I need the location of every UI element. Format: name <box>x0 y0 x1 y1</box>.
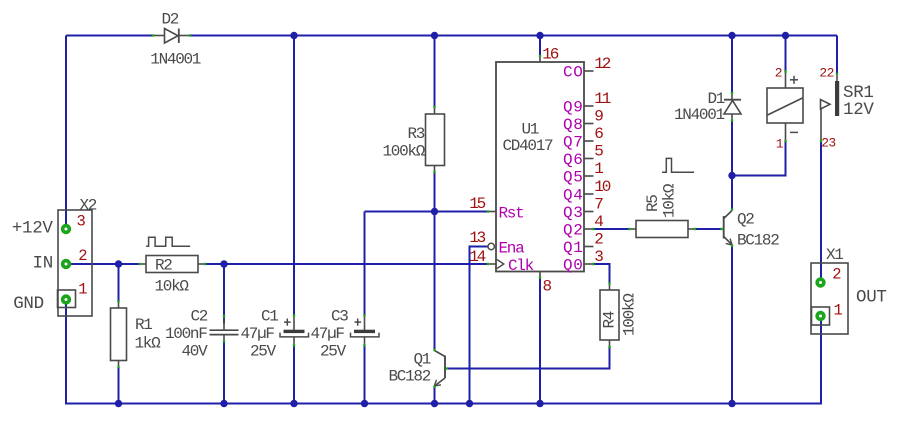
svg-text:1kΩ: 1kΩ <box>135 335 162 353</box>
svg-text:C2: C2 <box>191 308 208 326</box>
svg-text:U1: U1 <box>522 120 539 138</box>
svg-text:Q2: Q2 <box>563 221 583 239</box>
svg-text:Q2: Q2 <box>737 211 754 229</box>
svg-text:13: 13 <box>469 229 485 247</box>
svg-text:1: 1 <box>78 281 87 299</box>
svg-text:CD4017: CD4017 <box>503 137 554 155</box>
svg-text:+12V: +12V <box>12 219 54 239</box>
svg-text:2: 2 <box>78 247 87 265</box>
svg-text:11: 11 <box>594 90 610 108</box>
svg-text:Q6: Q6 <box>563 151 583 169</box>
svg-text:IN: IN <box>33 254 53 274</box>
svg-text:100kΩ: 100kΩ <box>621 293 639 336</box>
svg-text:100kΩ: 100kΩ <box>383 143 426 161</box>
svg-text:R2: R2 <box>155 257 172 275</box>
svg-text:Q9: Q9 <box>563 98 583 116</box>
svg-text:25V: 25V <box>250 342 277 360</box>
svg-text:22: 22 <box>819 65 833 80</box>
svg-text:16: 16 <box>542 46 558 64</box>
svg-text:Q5: Q5 <box>563 168 583 186</box>
svg-text:14: 14 <box>469 248 485 266</box>
svg-text:R4: R4 <box>601 311 619 328</box>
svg-text:Q1: Q1 <box>414 351 431 369</box>
svg-text:Q3: Q3 <box>563 204 583 222</box>
svg-text:12: 12 <box>594 55 610 73</box>
svg-text:CO: CO <box>563 63 583 81</box>
svg-text:3: 3 <box>77 213 86 231</box>
svg-text:25V: 25V <box>320 342 347 360</box>
svg-text:C3: C3 <box>331 308 348 326</box>
svg-text:10kΩ: 10kΩ <box>661 183 679 218</box>
svg-text:Rst: Rst <box>499 204 524 222</box>
svg-text:C1: C1 <box>261 308 278 326</box>
svg-text:Q8: Q8 <box>563 116 583 134</box>
svg-text:GND: GND <box>13 294 44 314</box>
svg-text:12V: 12V <box>843 100 874 120</box>
svg-text:Clk: Clk <box>508 257 534 275</box>
svg-text:100nF: 100nF <box>165 325 207 343</box>
svg-text:R3: R3 <box>408 125 425 143</box>
svg-text:1N4001: 1N4001 <box>150 51 201 69</box>
svg-text:1N4001: 1N4001 <box>674 106 725 124</box>
svg-text:40V: 40V <box>182 342 209 360</box>
svg-text:1: 1 <box>834 301 843 319</box>
svg-text:47µF: 47µF <box>241 325 275 343</box>
svg-text:Q0: Q0 <box>563 256 583 274</box>
svg-text:2: 2 <box>775 65 782 80</box>
svg-text:R5: R5 <box>644 195 662 212</box>
svg-text:OUT: OUT <box>856 288 887 308</box>
svg-text:Q4: Q4 <box>563 186 583 204</box>
svg-text:Q1: Q1 <box>563 239 583 257</box>
svg-text:10kΩ: 10kΩ <box>155 278 190 296</box>
svg-text:1: 1 <box>776 136 784 151</box>
svg-text:BC182: BC182 <box>389 368 431 386</box>
svg-text:R1: R1 <box>135 316 152 334</box>
svg-text:47µF: 47µF <box>311 325 345 343</box>
svg-text:X1: X1 <box>826 246 843 264</box>
svg-text:10: 10 <box>594 178 610 196</box>
svg-text:23: 23 <box>821 136 835 151</box>
svg-text:2: 2 <box>832 266 841 284</box>
svg-text:D2: D2 <box>162 11 179 29</box>
svg-text:Ena: Ena <box>499 239 526 257</box>
svg-text:Q7: Q7 <box>563 133 583 151</box>
svg-text:BC182: BC182 <box>737 232 779 250</box>
svg-text:15: 15 <box>469 195 485 213</box>
